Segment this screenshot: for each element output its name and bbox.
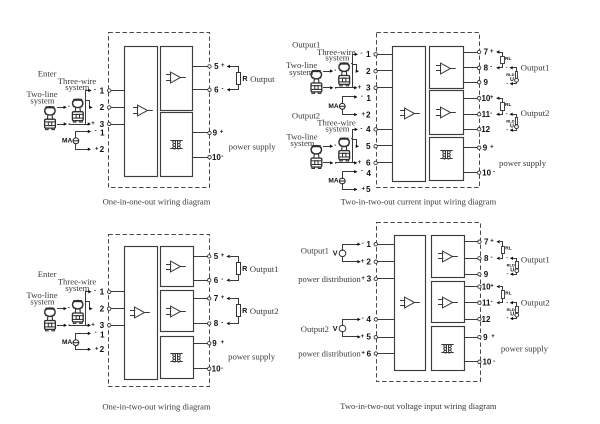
transmitter icon D2 group2 three-wire: [339, 138, 350, 161]
op-amp symbol D4 output1: [438, 251, 458, 262]
resistor RL 789: [501, 57, 505, 64]
svg-text:Enter: Enter: [38, 269, 57, 279]
wire input row D4 y319.4: [378, 319, 395, 321]
terminal circles D1: [108, 89, 111, 92]
wire output row D3 y256.4: [194, 256, 208, 258]
wire U to common ('10', '11', '12'): [513, 129, 517, 131]
wire R loop bottom 56: [231, 275, 239, 281]
wire MA loop bottom to terminal 2 D2 group1: [343, 110, 356, 115]
svg-text:-: -: [362, 241, 364, 247]
svg-text:6: 6: [366, 159, 371, 168]
wire MA loop bottom to terminal 2 D3: [76, 346, 89, 350]
svg-text:-: -: [507, 315, 509, 321]
milliammeter MA D1: [73, 138, 79, 144]
wire output row D3 y323.5: [194, 323, 208, 325]
svg-text:U: U: [510, 77, 514, 83]
svg-text:system: system: [30, 96, 54, 106]
terminal circles left D4: [374, 243, 377, 246]
svg-text:5: 5: [214, 62, 219, 71]
svg-text:+: +: [361, 276, 365, 282]
wire output row D2 y114.3: [464, 114, 478, 116]
svg-text:1: 1: [100, 129, 105, 138]
svg-text:+: +: [221, 63, 225, 69]
svg-text:2: 2: [366, 67, 371, 76]
svg-text:1: 1: [366, 94, 371, 103]
svg-text:-: -: [94, 87, 96, 93]
wire output row D4 y286.6: [465, 286, 478, 288]
wire output row D4 y337.1: [465, 337, 478, 339]
svg-text:system: system: [30, 296, 54, 306]
wire three-wire transmitter leads D2 group1: [352, 63, 353, 65]
svg-text:7: 7: [214, 294, 219, 303]
wire V top to terminal 45: [343, 320, 359, 326]
wire output 5 D1: [193, 66, 208, 68]
svg-text:1: 1: [366, 50, 371, 59]
wire output row D4 y319.1: [465, 319, 478, 321]
svg-text:system: system: [325, 124, 349, 134]
svg-text:-: -: [507, 271, 509, 277]
wire to terminal 3 arrow D2 group2: [354, 161, 357, 164]
power transformer block D3: [161, 337, 194, 379]
transmitter icon D1 three-wire: [72, 99, 83, 122]
svg-text:MA: MA: [62, 137, 72, 144]
svg-text:2: 2: [100, 305, 105, 314]
svg-text:Output1: Output1: [301, 245, 329, 255]
wire R loop top 56: [226, 255, 229, 258]
svg-text:V: V: [333, 324, 338, 333]
resistor RL ('10', '11', '12'): [502, 291, 505, 299]
svg-text:+: +: [361, 259, 365, 265]
power transformer block D1: [161, 113, 193, 177]
svg-text:system: system: [325, 53, 349, 63]
wire two-line transmitter bottom lead to terminal 3 D2 group2: [324, 162, 330, 164]
svg-text:power supply: power supply: [229, 142, 277, 152]
wire two-line transmitter top lead D1: [58, 107, 64, 109]
wire MA loop top to terminal 1 D1: [76, 132, 89, 138]
wire RL to minus ('10', '11', '12'): [500, 111, 503, 115]
resistor RL ('10', '11', '12'): [501, 103, 505, 111]
svg-text:-: -: [361, 94, 363, 100]
svg-text:power supply: power supply: [228, 352, 276, 362]
svg-text:+: +: [490, 283, 494, 289]
svg-text:R: R: [242, 74, 248, 83]
wire three-wire transmitter leads D2 group2: [352, 138, 353, 140]
wire R loop bottom 56: [231, 85, 239, 90]
svg-text:1: 1: [100, 331, 105, 340]
svg-text:+: +: [490, 239, 494, 245]
svg-text:10: 10: [482, 358, 491, 367]
svg-text:-: -: [506, 299, 508, 305]
svg-text:+: +: [491, 334, 495, 340]
svg-text:Output2: Output2: [292, 110, 320, 120]
wire output row D2 y82.2: [464, 82, 478, 84]
svg-text:2: 2: [100, 103, 105, 112]
svg-text:-: -: [360, 126, 362, 132]
output amplifier block D1: [161, 47, 193, 111]
wire power 9 D1: [193, 132, 208, 134]
wire two-line transmitter bottom lead to terminal 3 D1: [58, 124, 64, 126]
wire RL to minus 789: [501, 254, 503, 259]
svg-text:-: -: [506, 64, 508, 70]
resistor RLD ('10', '11', '12'): [516, 307, 519, 313]
svg-text:10: 10: [212, 365, 221, 374]
svg-text:1: 1: [100, 86, 105, 95]
output amplifier block 1 D4: [432, 236, 465, 278]
wire output row D3 y280.2: [194, 280, 208, 282]
transmitter icon D2 group1 two-line: [311, 71, 322, 94]
svg-text:-: -: [491, 255, 493, 261]
svg-text:3: 3: [367, 275, 372, 284]
svg-text:-: -: [222, 87, 224, 93]
wire input 1 D3: [111, 291, 125, 293]
terminal circles right D2: [477, 50, 480, 53]
wire input row D4 y337.2: [378, 337, 395, 339]
op-amp symbol D2 output2: [436, 107, 456, 118]
wire U to common 789: [513, 273, 517, 275]
svg-text:7: 7: [484, 237, 489, 246]
svg-text:Two-in-two-out voltage input w: Two-in-two-out voltage input wiring diag…: [340, 401, 497, 411]
wire to terminal 3 arrow D1: [88, 122, 91, 125]
svg-text:Output2: Output2: [521, 108, 550, 118]
transmitter icon D2 group2 two-line: [311, 146, 322, 169]
op-amp symbol D2 main: [400, 108, 420, 119]
wire V top to terminal 12: [343, 245, 359, 251]
wire three-wire mid lead to terminal 2 D1: [86, 101, 91, 108]
wire RL to minus 789: [500, 64, 503, 68]
svg-text:power distribution: power distribution: [298, 274, 361, 284]
transformer symbol D2: [440, 151, 452, 160]
wire MA loop top to terminal 1 D2 group1: [343, 97, 356, 104]
svg-text:+: +: [221, 295, 225, 301]
dashed enclosure D4: [377, 223, 481, 382]
svg-text:One-in-two-out wiring diagram: One-in-two-out wiring diagram: [102, 402, 211, 412]
wire to terminal 3 arrow D2 group1: [354, 86, 357, 89]
output amplifier block 2 D4: [432, 282, 465, 323]
resistor RL 789: [502, 247, 505, 254]
terminal circles D2 group2: [374, 128, 377, 131]
svg-text:8: 8: [214, 319, 219, 328]
dashed enclosure D1: [109, 33, 210, 188]
resistor RLD 789: [516, 72, 518, 79]
svg-text:7: 7: [484, 48, 489, 57]
svg-text:8: 8: [484, 64, 489, 73]
svg-text:+: +: [361, 187, 365, 193]
svg-text:-: -: [68, 104, 70, 110]
svg-text:5: 5: [366, 333, 371, 342]
output amplifier block 2 D2: [430, 91, 464, 135]
wire load RL loop ('10', '11', '12'): [501, 287, 503, 291]
wire output 6 D1: [193, 89, 208, 91]
svg-text:Two-in-two-out current input w: Two-in-two-out current input wiring diag…: [341, 197, 497, 207]
wire MA loop top to terminal 1 D2 group2: [343, 172, 356, 179]
svg-text:+: +: [490, 145, 494, 151]
voltage source U ('10', '11', '12'): [515, 125, 519, 129]
svg-text:12: 12: [481, 125, 490, 134]
wire RL to minus ('10', '11', '12'): [501, 299, 503, 303]
svg-text:+: +: [221, 340, 225, 346]
wire three-wire transmitter leads D1: [85, 99, 87, 101]
wire input row D2 y71.0: [378, 70, 393, 72]
milliammeter MA D2 group1: [339, 103, 345, 109]
svg-text:+: +: [361, 112, 365, 118]
svg-text:U: U: [510, 123, 514, 129]
svg-text:2: 2: [100, 345, 105, 354]
wire input row D4 y244.2: [378, 244, 395, 246]
svg-text:-: -: [68, 305, 70, 311]
svg-text:MA: MA: [328, 178, 338, 185]
wire two-line transmitter top lead D2 group2: [324, 146, 330, 148]
svg-text:+: +: [490, 49, 494, 55]
svg-text:+: +: [361, 351, 365, 357]
svg-text:8: 8: [484, 254, 489, 263]
transmitter icon D1 two-line: [45, 107, 56, 130]
op-amp symbol D2 output1: [436, 63, 456, 74]
svg-text:-: -: [493, 170, 495, 176]
voltage source U ('10', '11', '12'): [515, 313, 519, 317]
svg-text:10: 10: [482, 168, 491, 177]
svg-text:Output1: Output1: [521, 255, 550, 265]
svg-text:+: +: [95, 146, 99, 152]
svg-text:Output1: Output1: [521, 62, 550, 72]
wire input row D4 y353.5: [378, 353, 395, 355]
terminal circles D2 group1: [374, 53, 377, 56]
wire output row D4 y241.7: [465, 241, 478, 243]
svg-text:5: 5: [366, 142, 371, 151]
output amplifier block 2 D3: [161, 291, 194, 332]
wire output row D4 y361.8: [465, 361, 478, 363]
svg-text:1: 1: [366, 240, 371, 249]
svg-text:system: system: [289, 67, 313, 77]
wire load RL loop 789: [501, 242, 503, 247]
wire U to common 789: [513, 83, 517, 84]
svg-text:5: 5: [214, 252, 219, 261]
svg-text:R: R: [242, 306, 248, 315]
svg-text:-: -: [506, 80, 508, 86]
svg-text:+: +: [490, 95, 494, 101]
terminal circles right D1: [208, 65, 211, 68]
svg-text:RL: RL: [505, 56, 511, 62]
svg-text:3: 3: [100, 321, 105, 330]
svg-text:-: -: [94, 289, 96, 295]
wire three-wire mid lead to terminal 2 D2 group2: [353, 140, 357, 147]
wire R loop bottom 78: [231, 317, 239, 324]
svg-text:+: +: [361, 334, 365, 340]
svg-text:10: 10: [212, 153, 221, 162]
svg-text:R: R: [242, 264, 248, 273]
voltage source U 789: [515, 269, 519, 273]
wire output row D2 y172.6: [464, 172, 478, 174]
wire input 2 D1: [111, 107, 125, 109]
resistor RLD 789: [516, 262, 519, 269]
wire input row D4 y261.7: [378, 261, 395, 263]
wire two-line transmitter bottom lead to terminal 3 D2 group1: [324, 87, 330, 89]
svg-text:+: +: [358, 160, 362, 166]
svg-text:-: -: [221, 366, 223, 372]
svg-text:9: 9: [213, 129, 218, 138]
svg-text:Output2: Output2: [250, 306, 279, 316]
power transformer block D4: [432, 327, 465, 371]
svg-text:Output2: Output2: [521, 298, 550, 308]
wire load RL loop ('10', '11', '12'): [500, 99, 503, 103]
svg-text:4: 4: [366, 125, 371, 134]
wire three-wire transmitter leads D3: [85, 300, 87, 302]
wire output row D3 y368.8: [194, 368, 208, 370]
wire input row D4 y278.8: [378, 278, 395, 280]
transformer symbol D4: [441, 345, 453, 354]
svg-text:Output: Output: [250, 74, 275, 84]
svg-text:One-in-one-out wiring diagram: One-in-one-out wiring diagram: [103, 196, 211, 206]
svg-text:9: 9: [212, 339, 217, 348]
svg-text:2: 2: [366, 258, 371, 267]
terminal circles right D3: [208, 255, 211, 258]
svg-text:+: +: [221, 253, 225, 259]
svg-text:-: -: [95, 330, 97, 336]
wire V bottom to terminal 45: [343, 332, 359, 337]
dashed enclosure D2: [377, 33, 480, 188]
wire two-line transmitter top lead D2 group1: [324, 71, 330, 73]
wire input row D2 y54.3: [378, 54, 393, 56]
svg-text:3: 3: [100, 120, 105, 129]
wire output row D3 y298.5: [194, 298, 208, 300]
svg-text:-: -: [360, 51, 362, 57]
op-amp symbol D3 output1: [166, 261, 186, 272]
svg-text:2: 2: [366, 110, 371, 119]
svg-text:Enter: Enter: [38, 68, 57, 78]
svg-text:-: -: [490, 111, 492, 117]
op-amp symbol D3 main: [130, 307, 150, 318]
terminal circles D3: [108, 290, 111, 293]
svg-text:9: 9: [483, 143, 488, 152]
wire MA loop bottom to terminal 2 D2 group2: [343, 184, 356, 190]
wire input 3 D3: [111, 325, 125, 327]
wire output row D2 y67.8: [464, 67, 478, 69]
svg-text:+: +: [358, 85, 362, 91]
wire U to common ('10', '11', '12'): [513, 318, 517, 319]
svg-text:+: +: [220, 130, 224, 136]
transmitter icon D3 two-line: [45, 308, 56, 331]
svg-text:6: 6: [214, 86, 219, 95]
svg-text:RL: RL: [505, 102, 511, 108]
svg-text:-: -: [361, 169, 363, 175]
svg-text:2: 2: [100, 145, 105, 154]
output amplifier block 1 D3: [161, 247, 194, 287]
svg-text:-: -: [221, 277, 223, 283]
svg-text:MA: MA: [328, 103, 338, 110]
svg-text:+: +: [91, 323, 95, 329]
op-amp symbol D1 main: [133, 105, 153, 116]
svg-text:RL: RL: [505, 291, 511, 297]
svg-text:-: -: [221, 154, 223, 160]
svg-text:12: 12: [482, 315, 491, 324]
load resistor R 78: [237, 305, 241, 317]
wire V bottom to terminal 12: [343, 257, 359, 262]
svg-text:U: U: [510, 267, 514, 273]
wire R loop top 56: [227, 65, 230, 68]
wire two-line transmitter bottom lead to terminal 3 D3: [58, 325, 64, 327]
svg-text:-: -: [506, 127, 508, 133]
svg-text:-: -: [334, 68, 336, 74]
op-amp symbol D4 output2: [438, 297, 458, 308]
svg-text:Output2: Output2: [301, 324, 329, 334]
wire output row D3 y343.3: [194, 343, 208, 345]
svg-text:+: +: [91, 121, 95, 127]
svg-text:-: -: [490, 65, 492, 71]
svg-text:-: -: [493, 359, 495, 365]
load resistor R 56: [237, 73, 241, 85]
power transformer block D2: [430, 138, 464, 181]
wire input row D2 y129.4: [378, 129, 393, 131]
svg-text:5: 5: [366, 185, 371, 194]
wire three-wire mid lead to terminal 2 D3: [86, 302, 91, 309]
wire output row D2 y129.2: [464, 129, 478, 131]
wire MA loop bottom to terminal 2 D1: [76, 144, 89, 150]
svg-text:U: U: [510, 312, 514, 318]
svg-text:power supply: power supply: [499, 158, 547, 168]
op-amp symbol D4 main: [400, 297, 420, 308]
svg-text:6: 6: [214, 276, 219, 285]
svg-text:power distribution: power distribution: [298, 349, 361, 359]
wire input row D2 y145.8: [378, 145, 393, 147]
wire input 2 D3: [111, 308, 125, 310]
resistor RLD ('10', '11', '12'): [516, 118, 518, 125]
op-amp symbol D3 output2: [166, 306, 186, 317]
svg-text:+: +: [95, 347, 99, 353]
milliammeter MA D3: [73, 340, 79, 346]
svg-text:-: -: [362, 316, 364, 322]
svg-text:Output1: Output1: [250, 264, 279, 274]
terminal circles right D4: [478, 240, 481, 243]
voltage source U 789: [515, 78, 519, 82]
main module block D1: [125, 47, 158, 177]
transformer symbol D3: [170, 354, 182, 363]
transmitter icon D2 group1 three-wire: [339, 63, 350, 86]
svg-text:9: 9: [483, 333, 488, 342]
main module block D2: [393, 47, 426, 182]
milliammeter MA D2 group2: [339, 178, 345, 184]
svg-text:-: -: [95, 128, 97, 134]
wire input row D2 y162.5: [378, 162, 393, 164]
svg-text:4: 4: [366, 169, 371, 178]
wire output row D4 y274.3: [465, 274, 478, 276]
main module block D3: [125, 247, 158, 380]
wire three-wire mid lead to terminal 2 D2 group1: [353, 65, 357, 72]
svg-text:-: -: [491, 300, 493, 306]
svg-text:-: -: [221, 320, 223, 326]
wire output row D4 y258.3: [465, 258, 478, 260]
svg-text:-: -: [506, 111, 508, 117]
op-amp symbol D1 output: [166, 72, 186, 83]
wire power 10 D1: [193, 157, 208, 159]
wire input 3 D1: [111, 124, 125, 126]
main module block D4: [395, 236, 426, 371]
output amplifier block 1 D2: [430, 47, 464, 89]
wire MA loop top to terminal 1 D3: [76, 334, 89, 340]
transformer symbol D1: [170, 141, 182, 150]
svg-text:RL: RL: [505, 246, 511, 252]
load resistor R 56: [237, 263, 241, 275]
dashed enclosure D3: [109, 235, 210, 387]
wire output row D2 y98.2: [464, 98, 478, 100]
transmitter icon D3 three-wire: [72, 301, 83, 324]
svg-text:-: -: [334, 143, 336, 149]
svg-text:system: system: [290, 138, 314, 148]
svg-text:-: -: [506, 255, 508, 261]
wire output row D2 y147.7: [464, 147, 478, 149]
svg-text:1: 1: [100, 288, 105, 297]
wire two-line transmitter top lead D3: [58, 308, 64, 310]
svg-text:3: 3: [366, 84, 371, 93]
wire input row D2 y87.7: [378, 87, 393, 89]
